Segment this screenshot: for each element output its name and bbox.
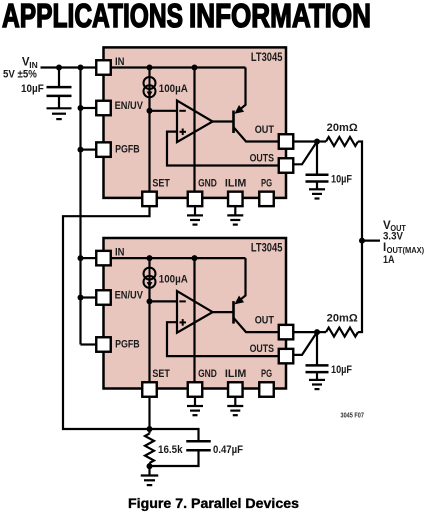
svg-text:PG: PG (261, 177, 272, 189)
svg-text:20mΩ: 20mΩ (327, 122, 358, 134)
svg-text:20mΩ: 20mΩ (327, 313, 358, 325)
svg-text:GND: GND (198, 368, 217, 380)
svg-text:PGFB: PGFB (115, 144, 140, 156)
svg-text:5V ±5%: 5V ±5% (3, 69, 37, 81)
svg-text:SET: SET (152, 368, 170, 380)
svg-text:100µA: 100µA (159, 83, 188, 95)
svg-text:INFORMATION: INFORMATION (189, 0, 371, 35)
svg-text:OUTS: OUTS (250, 152, 274, 164)
svg-text:10µF: 10µF (331, 364, 352, 376)
svg-text:10µF: 10µF (21, 83, 44, 95)
svg-text:ILIM: ILIM (225, 368, 246, 380)
svg-text:ILIM: ILIM (225, 177, 246, 189)
svg-text:OUT: OUT (255, 315, 275, 327)
svg-text:OUTS: OUTS (250, 343, 274, 355)
svg-text:OUT: OUT (255, 124, 275, 136)
svg-text:100µA: 100µA (159, 273, 188, 285)
svg-text:PGFB: PGFB (115, 338, 140, 350)
svg-text:LT3045: LT3045 (251, 52, 283, 64)
svg-text:PG: PG (261, 368, 272, 380)
svg-text:16.5k: 16.5k (158, 444, 183, 456)
svg-text:10µF: 10µF (331, 173, 352, 185)
svg-text:EN/UV: EN/UV (115, 100, 144, 112)
svg-text:IN: IN (115, 246, 125, 258)
svg-text:GND: GND (198, 177, 217, 189)
svg-text:IN: IN (115, 56, 125, 68)
svg-text:APPLICATIONS: APPLICATIONS (2, 0, 183, 35)
svg-text:Figure 7. Parallel Devices: Figure 7. Parallel Devices (128, 495, 299, 511)
svg-text:1A: 1A (383, 254, 395, 266)
svg-text:SET: SET (152, 177, 170, 189)
svg-text:3045 F07: 3045 F07 (341, 413, 365, 420)
svg-text:EN/UV: EN/UV (115, 290, 144, 302)
svg-text:0.47µF: 0.47µF (213, 444, 243, 456)
svg-text:LT3045: LT3045 (251, 243, 283, 255)
svg-text:3.3V: 3.3V (383, 230, 404, 242)
